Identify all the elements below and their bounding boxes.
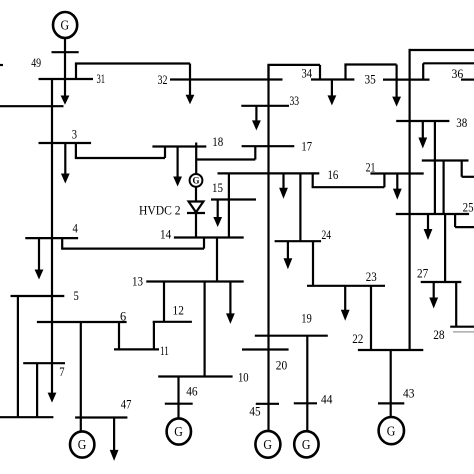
bus 34 — [311, 78, 354, 80]
wire gen49 lead — [64, 38, 66, 79]
svg-text:27: 27 — [417, 265, 429, 280]
svg-text:32: 32 — [158, 72, 168, 87]
wire 34-35 drop — [396, 65, 398, 80]
svg-text:7: 7 — [59, 364, 65, 379]
svg-text:19: 19 — [301, 311, 312, 326]
svg-text:28: 28 — [433, 327, 444, 342]
svg-text:43: 43 — [403, 386, 414, 401]
wire 19-44-G drop — [306, 336, 308, 432]
wire 25-27 vertical — [444, 214, 446, 282]
wire diode to bus 14 — [195, 213, 197, 238]
bus 18 — [152, 145, 206, 147]
bus 12 — [153, 321, 192, 323]
svg-text:G: G — [78, 437, 87, 452]
bus 15 — [211, 198, 256, 200]
wire 16-21 horizontal — [312, 186, 385, 188]
svg-text:G: G — [61, 18, 70, 33]
svg-text:47: 47 — [121, 397, 132, 412]
bus 13 — [146, 280, 243, 282]
load arrow at bus 15 — [213, 200, 222, 228]
load arrow at bus 23 — [341, 286, 350, 321]
svg-text:G: G — [263, 437, 272, 452]
bus 31 — [39, 78, 94, 80]
wire horizontal into bus31 load tip — [0, 105, 64, 107]
wire 4-14 drop — [61, 238, 63, 249]
svg-text:22: 22 — [352, 331, 363, 346]
wire y160 right drop — [461, 161, 463, 177]
bus 27 — [421, 281, 462, 283]
svg-text:38: 38 — [456, 115, 467, 130]
bus 21 — [370, 172, 423, 174]
wire 12-11 drop — [153, 322, 155, 350]
svg-text:G: G — [174, 424, 183, 439]
svg-text:20: 20 — [276, 358, 287, 373]
load arrow at bus 4 — [35, 238, 44, 279]
wire 16-21 left drop — [312, 173, 314, 187]
svg-text:G: G — [192, 176, 199, 186]
bus 3 — [39, 142, 92, 144]
wire 31-32 riser — [75, 64, 77, 80]
generator G46 circle — [167, 418, 191, 444]
load arrow at bus 47 — [110, 418, 119, 461]
wire 4-14 horizontal — [61, 248, 204, 250]
wire stub left edge — [0, 64, 3, 66]
svg-text:34: 34 — [302, 65, 313, 80]
load arrow at bus 31 — [61, 79, 70, 105]
bus 25 — [396, 213, 469, 215]
bus 6 — [37, 321, 127, 323]
bus 35 — [383, 78, 430, 80]
svg-text:25: 25 — [463, 199, 474, 214]
bus 5 — [11, 295, 65, 297]
load arrow at bus 38 — [418, 121, 427, 149]
load arrow at bus 33 — [252, 106, 261, 131]
svg-text:12: 12 — [173, 302, 184, 317]
svg-text:49: 49 — [31, 55, 41, 70]
HVDC converter circle — [190, 174, 203, 187]
svg-text:35: 35 — [365, 71, 376, 86]
svg-text:17: 17 — [301, 138, 312, 153]
wire 16-24 drop — [299, 173, 301, 241]
wire long vertical 32-33-17-16-19-20-45 — [267, 65, 269, 431]
wire 13-12 drop — [163, 282, 165, 322]
wire 34 drop — [319, 65, 321, 80]
wire 31-32 drop — [189, 64, 191, 80]
wire HVDC circle to diode — [195, 187, 197, 202]
transformer tick 44 — [294, 402, 317, 404]
svg-text:5: 5 — [74, 288, 79, 303]
wire long vertical 31-3-4-5-6-7 with load arrow tip — [48, 79, 57, 403]
wire 4-14 riser — [203, 238, 205, 249]
wire HVDC tap through bus 18 — [195, 143, 197, 175]
generator G44 circle — [294, 431, 318, 457]
svg-text:33: 33 — [290, 93, 300, 108]
wire 24-23 drop — [312, 241, 314, 286]
wire 18-17 link riser — [254, 146, 256, 159]
wire y160-25 drop — [443, 161, 445, 215]
bus 47 — [75, 416, 127, 418]
load arrow at bus 35 — [392, 80, 401, 107]
load arrow at bus 32 — [186, 80, 195, 105]
wire 25 right drop — [454, 214, 456, 227]
bus 7 — [23, 362, 65, 364]
bus 28 — [450, 326, 474, 328]
bus 8 segment lower-left — [0, 416, 53, 418]
load arrow at bus 27 — [429, 282, 438, 309]
bus 11 — [114, 348, 159, 350]
wire 6-11 drop — [118, 322, 120, 349]
bus 17 — [242, 145, 295, 147]
bus 22 — [358, 349, 423, 351]
wire 14-13 vertical — [216, 238, 218, 282]
load arrow at bus 18 — [173, 147, 182, 187]
svg-text:13: 13 — [132, 273, 143, 288]
wire 35-right top — [423, 62, 474, 64]
bus 10 — [158, 375, 232, 377]
wire 10-46-G drop — [177, 377, 179, 419]
svg-text:15: 15 — [212, 180, 223, 195]
wire 3-18 drop — [75, 143, 77, 158]
wire 32/33-34 riser — [267, 65, 269, 80]
bus 4 — [25, 237, 78, 239]
bus 19 — [255, 335, 328, 337]
wire long vertical 35-38-25-22 — [409, 49, 411, 350]
svg-text:11: 11 — [160, 343, 169, 358]
load arrow at bus 24 — [284, 241, 293, 269]
wire 3-18 riser to bus18 — [164, 147, 166, 159]
wire 6-47-G drop — [80, 322, 82, 431]
svg-text:HVDC 2: HVDC 2 — [139, 203, 181, 218]
HVDC diode — [187, 202, 205, 214]
wire 13-10 drop — [204, 282, 206, 377]
wire 34-35 riser — [344, 65, 346, 80]
bus 49 bar — [52, 51, 79, 53]
bus 38 — [396, 120, 449, 122]
wire 22-43-G drop — [390, 350, 392, 417]
wire 7 left drop — [36, 363, 38, 417]
wire 35-right riser — [422, 63, 424, 79]
bus 20 — [242, 348, 289, 350]
wire 16-15-14 vertical — [228, 173, 230, 237]
bus 23 — [307, 285, 385, 287]
transformer tick 43 — [378, 402, 404, 404]
generator G47 circle — [70, 431, 94, 457]
bus 36 — [461, 78, 474, 80]
wire 16-21 riser — [383, 174, 385, 188]
bus 24 — [275, 240, 322, 242]
load arrow at bus 34 — [328, 80, 337, 106]
bus 16 (with 15 segment) — [218, 172, 320, 174]
wire 27-28 drop — [455, 282, 457, 327]
svg-text:44: 44 — [321, 392, 333, 407]
generator G45 circle — [255, 431, 280, 458]
svg-text:24: 24 — [322, 227, 332, 242]
wire ghost line right of 28 — [453, 331, 474, 333]
transformer tick 45 — [256, 403, 279, 405]
svg-text:45: 45 — [249, 404, 260, 419]
wire 38-25 vertical — [434, 121, 436, 214]
svg-text:31: 31 — [97, 71, 106, 86]
svg-text:46: 46 — [186, 384, 198, 399]
wire 33-34 top — [267, 64, 320, 66]
svg-text:4: 4 — [73, 220, 79, 235]
generator G43 circle — [379, 417, 404, 444]
wire horizontal y160 — [422, 159, 469, 161]
wire 18-17 link horizontal — [196, 158, 255, 160]
wire 23-22 drop — [370, 286, 372, 350]
load arrow at bus 16 — [279, 173, 288, 198]
wire 3-18 horizontal — [75, 157, 165, 159]
wire 5 left drop — [17, 296, 19, 417]
wire stub right y177 — [462, 176, 474, 178]
load arrow at bus 25 — [424, 214, 433, 240]
svg-text:G: G — [387, 423, 396, 438]
wire top-right corner horizontal — [410, 49, 474, 51]
generator U49 circle — [53, 12, 77, 38]
wire 34-35 top — [344, 63, 396, 65]
wire 31-32 top — [75, 62, 190, 64]
svg-text:21: 21 — [366, 160, 376, 175]
svg-text:10: 10 — [238, 370, 249, 385]
transformer tick 46 — [165, 403, 193, 405]
bus 33 — [241, 105, 289, 107]
bus 32 — [170, 78, 283, 80]
svg-text:3: 3 — [72, 127, 77, 142]
svg-text:16: 16 — [328, 167, 339, 182]
bus 14 — [174, 236, 244, 238]
wire stub right y227 — [455, 226, 474, 228]
svg-text:18: 18 — [212, 134, 223, 149]
load arrow at bus 13 — [226, 282, 235, 324]
load arrow at bus 21 — [393, 174, 402, 200]
svg-text:G: G — [302, 437, 311, 452]
svg-text:23: 23 — [366, 269, 377, 284]
svg-text:14: 14 — [160, 226, 172, 241]
svg-text:6: 6 — [120, 308, 127, 323]
load arrow at bus 3 — [61, 143, 70, 184]
